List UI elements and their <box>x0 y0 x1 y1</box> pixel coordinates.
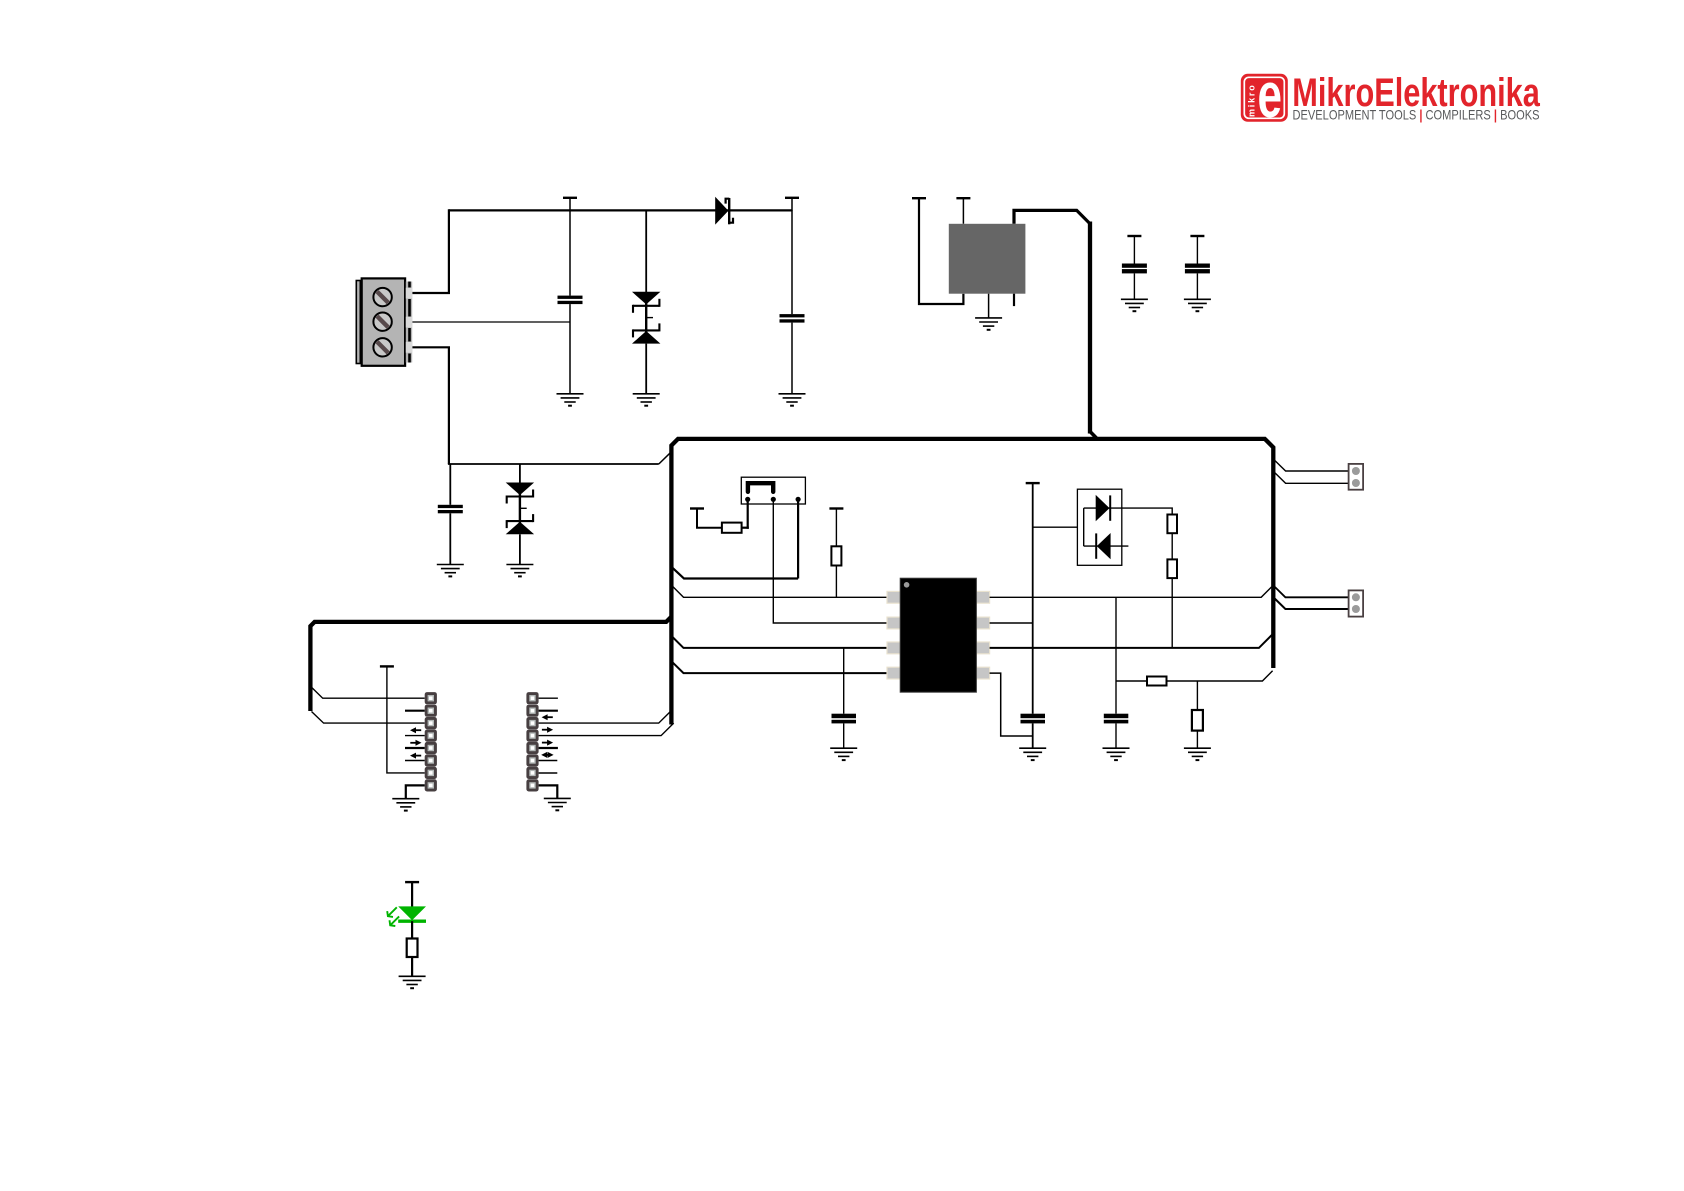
wire C7 vertical <box>1115 597 1117 713</box>
wire J1 pin1 down <box>747 499 749 529</box>
schottky diode D2 <box>715 197 733 225</box>
voltage regulator U1 <box>912 197 926 199</box>
wire HDR1 pin8 to ground <box>406 785 425 798</box>
resistor R5 <box>1147 677 1167 686</box>
jumper J1 <box>741 477 805 504</box>
logo MikroElektronika <box>1241 59 1541 131</box>
transil D5 lower <box>519 464 521 483</box>
ground under D1 <box>633 394 660 406</box>
wire box to CN3 pin1 <box>1275 587 1349 597</box>
capacitor C4 <box>1185 264 1210 268</box>
resistor R4 <box>1167 559 1177 578</box>
ground under R6 <box>1184 748 1211 760</box>
arrow right HDR1 <box>410 742 418 744</box>
capacitor C2 <box>791 210 793 314</box>
resistor R7 <box>407 939 418 958</box>
power tap above C3 <box>1127 235 1141 237</box>
arrow both HDR2 <box>544 754 550 756</box>
resistor R6 <box>1192 710 1203 731</box>
wire box to CN2 pin2 <box>1275 473 1349 484</box>
resistor R2 <box>835 509 837 547</box>
wire terminal pin1 to rail <box>411 209 449 293</box>
wire HDR2 pin4 to box bottom <box>539 723 674 736</box>
power tap above C2 <box>785 197 799 199</box>
ground under C7 <box>1103 748 1130 760</box>
wire stub HDR1 pin4 <box>405 735 425 737</box>
power tap above R2 <box>829 508 843 510</box>
wire HDR2 pin8 to ground <box>539 785 558 798</box>
wire bus stub to HDR1 pin3 <box>312 712 425 724</box>
svg-text:mikro: mikro <box>1247 83 1257 117</box>
LED arrows <box>387 907 399 926</box>
ground under D5 <box>506 565 533 577</box>
wire terminal pin2 to C1 <box>411 321 570 323</box>
arrow left2 HDR1 <box>413 755 421 757</box>
bus wire U1 output to box <box>1014 210 1090 223</box>
wire stub HDR2 pin2 <box>539 710 558 712</box>
wire R5 to bus corner <box>1167 671 1273 681</box>
ground stub U1 <box>988 294 990 318</box>
screw 3 <box>373 338 391 356</box>
wire stub HDR2 pin7 <box>539 772 558 774</box>
power tap J1 area <box>690 508 704 510</box>
node row3 wire left <box>673 637 889 648</box>
screw terminal CN1 <box>356 278 412 365</box>
power tap LED <box>405 881 419 883</box>
wire stub HDR2 pin6 <box>539 760 558 762</box>
screw 2 <box>373 313 391 331</box>
arrow right HDR2 b <box>542 742 550 744</box>
svg-text:DEVELOPMENT TOOLS | COMPILERS: DEVELOPMENT TOOLS | COMPILERS | BOOKS <box>1293 108 1540 123</box>
left bus to headers <box>310 616 671 711</box>
wire D3 to R3 chain <box>1122 508 1172 514</box>
connector CN3 <box>1349 590 1364 616</box>
wire stub HDR2 pin1 <box>539 697 558 699</box>
wire C6 vertical <box>1032 483 1034 714</box>
wire U2 pin5 right to C6 bottom <box>990 673 1033 736</box>
capacitor C1 <box>569 210 571 295</box>
wire U2 pin6 right (row3) <box>990 635 1272 648</box>
wire terminal pin3 down-right to bus corner <box>411 347 449 464</box>
screw 1 <box>373 288 391 306</box>
wire diagonal into box corner <box>659 452 671 464</box>
schematic groups inserted below <box>310 59 1540 988</box>
capacitor C7 <box>1104 714 1129 719</box>
wire bus stub to HDR1 pin1 <box>312 687 425 698</box>
wire tap down to HDR1 pin7 <box>387 666 425 773</box>
wire row R5 <box>1116 680 1147 682</box>
arrow right HDR2 a <box>542 729 550 731</box>
power tap above C1 <box>563 197 577 199</box>
stub U1 pin right <box>1013 294 1015 306</box>
wire to dual diode D3 <box>1033 526 1084 528</box>
ground under C6 <box>1019 748 1046 760</box>
wire R4 down to row3 <box>1171 578 1173 648</box>
wire branch to R6 <box>1196 681 1198 710</box>
power tap above C4 <box>1190 235 1204 237</box>
ground under C3 <box>1121 299 1148 311</box>
arrow left HDR1 <box>413 729 421 731</box>
dual diode D3 <box>1077 489 1128 565</box>
ground HDR2 <box>544 798 571 810</box>
wire box to CN3 pin2 <box>1275 599 1349 609</box>
node row1 wire left <box>673 586 889 597</box>
capacitor C3 <box>1122 264 1147 268</box>
connector CN2 <box>1349 464 1364 490</box>
LED D4 <box>411 882 413 907</box>
transil D1 <box>645 210 647 292</box>
power tap above C6 line <box>1026 482 1040 484</box>
wire tap to R1 <box>697 509 722 528</box>
svg-text:e: e <box>1258 59 1283 131</box>
ground under C8 <box>437 565 464 577</box>
wire U2 pin7 right to C6 line <box>990 622 1033 624</box>
capacitor C6 <box>1021 714 1046 719</box>
wire GND row to box corner <box>448 463 659 465</box>
resistor R1 <box>722 523 742 533</box>
ground under C5 <box>830 748 857 760</box>
wire U2 pin8 right (row1) <box>990 587 1272 597</box>
wire J1 pin3 down to row0 <box>797 499 799 578</box>
wire stub HDR1 pin2 <box>405 710 425 712</box>
node row4 wire left <box>673 662 889 673</box>
capacitor C5 under IC <box>843 648 845 714</box>
header HDR1 <box>425 692 437 791</box>
wire VIN top rail <box>449 209 792 211</box>
ground under R7 <box>399 976 426 988</box>
ground under C1 <box>557 394 584 406</box>
resistor R3 <box>1167 515 1177 534</box>
ground HDR1 <box>392 799 419 811</box>
wire J1 pin2 down to U2 pin2 <box>773 499 888 623</box>
wire R1 to J1 pin1 <box>742 527 749 529</box>
wire HDR2 pin3 to box bottom <box>539 711 672 723</box>
ground under C2 <box>779 394 806 406</box>
wire R3 to R4 <box>1171 533 1173 559</box>
wire stub HDR1 pin5 <box>405 747 425 749</box>
wire stub HDR1 pin6 <box>405 760 425 762</box>
capacitor C8 lower left <box>449 464 451 505</box>
arrow left HDR2 <box>545 716 553 718</box>
wire box to CN2 pin1 <box>1275 460 1349 471</box>
ground under C4 <box>1184 299 1211 311</box>
main bus ring <box>671 439 1273 725</box>
node row0 jumper select wire <box>673 568 799 579</box>
IC U2 <box>887 578 990 692</box>
wire stub HDR2 pin5 <box>539 747 558 749</box>
header HDR2 <box>526 692 538 791</box>
power tap HDR1 <box>380 665 394 667</box>
